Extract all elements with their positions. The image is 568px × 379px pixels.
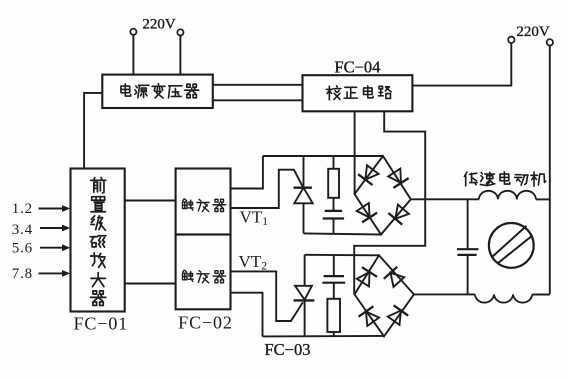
svg-text:FC−03: FC−03 — [265, 340, 311, 359]
svg-text:5.6: 5.6 — [12, 241, 33, 257]
svg-text:3.4: 3.4 — [12, 222, 33, 238]
svg-text:1.2: 1.2 — [12, 201, 33, 217]
svg-text:FC−04: FC−04 — [334, 57, 380, 76]
svg-text:220V: 220V — [142, 17, 176, 33]
svg-text:7.8: 7.8 — [12, 266, 33, 282]
svg-text:220V: 220V — [516, 24, 550, 40]
svg-text:FC−02: FC−02 — [178, 312, 233, 332]
svg-text:FC−01: FC−01 — [73, 313, 128, 333]
